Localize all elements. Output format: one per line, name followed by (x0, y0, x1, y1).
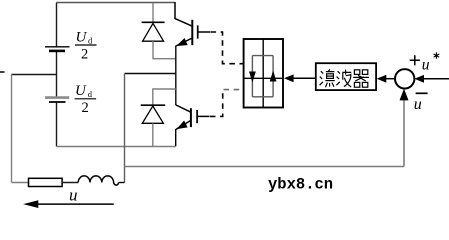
capacitor C1 (45, 47, 70, 51)
plus sign (410, 55, 420, 65)
output arrow for u (37, 203, 114, 205)
svg-text:U: U (76, 30, 88, 46)
resistor R (29, 178, 63, 186)
wire: DC-link capacitor rail (56, 3, 58, 147)
inductor L (78, 176, 118, 185)
svg-text:ybx8.cn: ybx8.cn (268, 175, 333, 193)
wire: AC output drop (124, 74, 126, 183)
IGBT Q2 (176, 105, 210, 146)
dashed gate link Q2 (210, 90, 223, 117)
wire: bridge midpoint vertical (175, 45, 177, 105)
dashed gate link Q1 (211, 32, 244, 64)
IGBT Q1 (175, 2, 210, 46)
wire: D1 anode to midpoint (152, 58, 176, 60)
wire: bottom left to resistor (12, 182, 29, 184)
svg-text:u: u (69, 186, 78, 205)
wire: D2 cathode to midpoint (152, 88, 176, 90)
wire: resistor to inductor (62, 182, 78, 184)
diode D1 (upper) (142, 22, 165, 58)
wire: setpoint input with arrowhead (424, 78, 449, 80)
svg-text:2: 2 (81, 47, 88, 63)
summing junction circle (395, 69, 414, 88)
wire: filter to drive block with arrowhead (292, 77, 316, 79)
drive block U1 (244, 39, 283, 108)
wire: summing junction to filter with arrowhead (386, 78, 395, 80)
wire: left rail down (11, 74, 13, 183)
svg-text:d: d (88, 89, 93, 99)
svg-text:2: 2 (82, 100, 89, 116)
arrowhead into summing junction (400, 89, 409, 101)
wire: DC bottom rail (57, 146, 176, 148)
wire: DC midpoint tap to left rail (12, 74, 57, 76)
label: 滤 (drawn glyph) (320, 69, 335, 87)
label: 波 (drawn glyph) (336, 70, 351, 87)
wire: upper diode cathode riser (152, 3, 154, 23)
label Ud/2 (C1) (75, 30, 97, 63)
terminal dash at left image edge (0, 71, 5, 73)
svg-text:u: u (422, 56, 430, 73)
capacitor C2 (45, 98, 69, 102)
label Ud/2 (C2) (75, 83, 97, 116)
label minus (416, 92, 428, 94)
diode D2 (lower) (141, 89, 166, 146)
wire: feedback riser (403, 99, 405, 167)
wire: AC output tap (125, 73, 176, 75)
wire: inductor to AC drop (118, 182, 124, 184)
svg-text:u: u (414, 96, 422, 113)
svg-text:U: U (75, 83, 87, 99)
filter box (316, 63, 376, 90)
svg-text:d: d (88, 36, 93, 46)
wire: top DC rail (57, 2, 176, 4)
label: 器 (drawn glyph) (353, 70, 369, 87)
wire: feedback horizontal (125, 166, 405, 168)
